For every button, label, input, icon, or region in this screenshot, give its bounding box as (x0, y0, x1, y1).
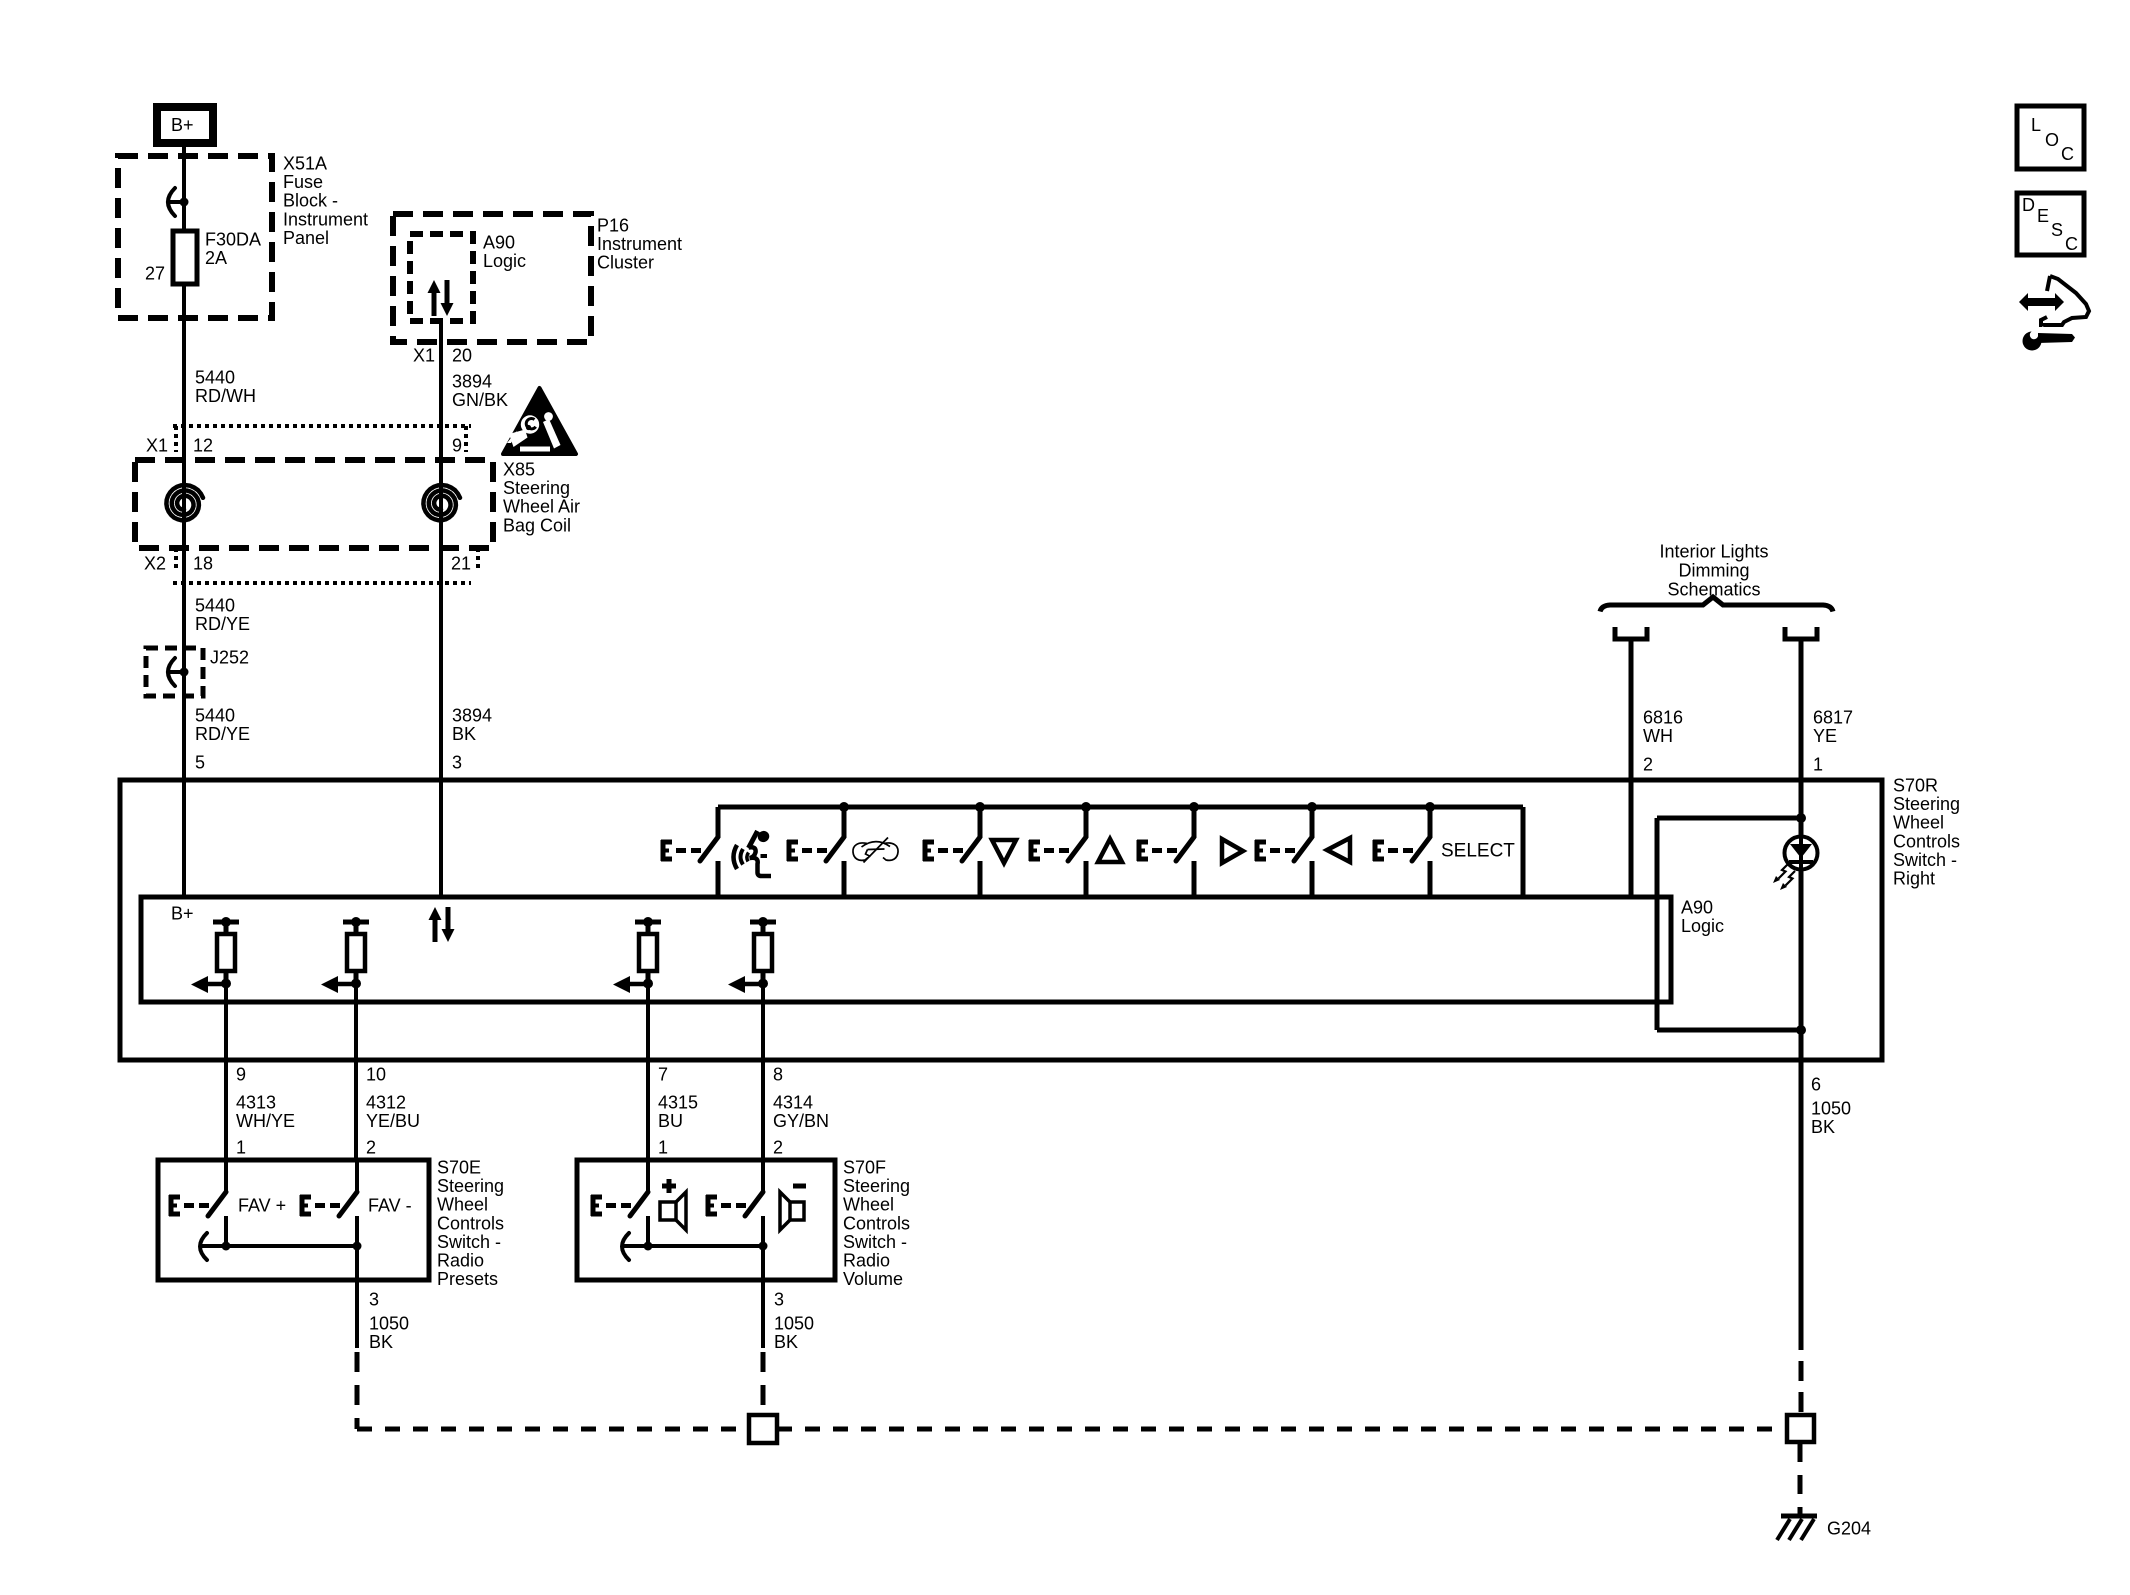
svg-text:Panel: Panel (283, 228, 329, 248)
wire X2 to J252 (182, 548, 186, 648)
resistor pull-up R1 pin9 (191, 917, 239, 993)
svg-text:C: C (2065, 234, 2078, 254)
switch FAV+ (169, 1160, 226, 1246)
svg-text:SELECT: SELECT (1441, 841, 1515, 862)
svg-text:Instrument: Instrument (283, 209, 368, 229)
wire through left coil (182, 460, 186, 548)
connector X51A fuse block dashed box (118, 156, 272, 318)
svg-text:BK: BK (369, 1332, 393, 1352)
svg-text:BK: BK (452, 724, 476, 744)
svg-text:1: 1 (1813, 755, 1823, 775)
svg-text:2A: 2A (205, 248, 227, 268)
svg-text:2: 2 (1643, 755, 1653, 775)
wire 6817 upper (1799, 639, 1804, 837)
svg-text:3: 3 (452, 753, 462, 773)
svg-text:B+: B+ (171, 904, 194, 924)
svg-text:X85: X85 (503, 460, 535, 480)
svg-text:Switch -: Switch - (843, 1232, 907, 1252)
A90 logic rail box inside S70R (141, 897, 1671, 1002)
common bus S70E (202, 1244, 357, 1248)
connector row X1 dotted (173, 426, 471, 452)
lead terminal left (1615, 627, 1647, 639)
icon next triangle (1222, 839, 1243, 863)
svg-text:X1: X1 (146, 436, 168, 456)
svg-text:Switch -: Switch - (1893, 850, 1957, 870)
junction dot at 1430 (1425, 802, 1435, 812)
svg-text:Controls: Controls (843, 1213, 910, 1233)
svg-text:20: 20 (452, 346, 472, 366)
coil spiral left (166, 485, 203, 520)
wire A90 to S70R pin 3 (439, 321, 443, 897)
svg-text:Right: Right (1893, 869, 1935, 889)
svg-text:4315: 4315 (658, 1093, 698, 1113)
svg-text:YE/BU: YE/BU (366, 1111, 420, 1131)
svg-text:YE: YE (1813, 726, 1837, 746)
icon previous triangle (1327, 838, 1350, 862)
fuse F30DA 2A (173, 231, 197, 284)
svg-text:1050: 1050 (774, 1314, 814, 1334)
junction dot at 980 (975, 802, 985, 812)
svg-text:6: 6 (1811, 1075, 1821, 1095)
resistor pull-up R3 pin7 (613, 917, 661, 993)
module S70E steering wheel controls switch radio presets box (158, 1160, 429, 1280)
svg-text:L: L (2031, 115, 2041, 135)
svg-text:WH/YE: WH/YE (236, 1111, 295, 1131)
icon seek down triangle (992, 840, 1016, 863)
svg-text:1: 1 (658, 1138, 668, 1158)
svg-text:4314: 4314 (773, 1093, 813, 1113)
junction dot at 1312 (1307, 802, 1317, 812)
svg-text:Cluster: Cluster (597, 253, 654, 273)
svg-text:Presets: Presets (437, 1269, 498, 1289)
svg-text:5: 5 (195, 753, 205, 773)
A90 logic dashed box (410, 234, 473, 321)
LOC box (2017, 106, 2084, 169)
svg-text:21: 21 (451, 554, 471, 574)
svg-text:GY/BN: GY/BN (773, 1111, 829, 1131)
clip hook S70E common (200, 1233, 207, 1260)
svg-text:BK: BK (774, 1332, 798, 1352)
junction dot at 1086 (1081, 802, 1091, 812)
svg-text:5440: 5440 (195, 706, 235, 726)
svg-text:6817: 6817 (1813, 708, 1853, 728)
svg-text:5440: 5440 (195, 596, 235, 616)
coil spiral right (423, 485, 460, 520)
switch FAV- (300, 1160, 357, 1246)
dashed ground bus horizontal (357, 1427, 749, 1432)
module S70R steering wheel controls switch right box (120, 780, 1882, 1060)
svg-text:S70E: S70E (437, 1158, 481, 1178)
svg-text:2: 2 (366, 1138, 376, 1158)
svg-text:S70R: S70R (1893, 776, 1938, 796)
svg-text:FAV +: FAV + (238, 1196, 286, 1216)
svg-text:Steering: Steering (1893, 794, 1960, 814)
wire pin5 into box (182, 780, 186, 897)
switch row bus (718, 805, 1523, 810)
svg-text:Switch -: Switch - (437, 1232, 501, 1252)
switch S70R next (1137, 807, 1194, 898)
svg-text:Wheel: Wheel (843, 1195, 894, 1215)
svg-text:RD/YE: RD/YE (195, 614, 250, 634)
svg-text:Dimming: Dimming (1678, 561, 1749, 581)
switch S70R voice (661, 807, 718, 898)
wire through right coil (439, 460, 443, 548)
svg-text:5440: 5440 (195, 368, 235, 388)
dashed ground wire S70E (355, 1352, 360, 1429)
svg-text:Radio: Radio (843, 1251, 890, 1271)
svg-text:Wheel Air: Wheel Air (503, 497, 580, 517)
svg-text:Logic: Logic (483, 251, 526, 271)
icon seek up triangle (1098, 839, 1122, 862)
minus sign (793, 1184, 806, 1189)
splice J252 dashed box (146, 648, 203, 696)
module S70F steering wheel controls switch radio volume box (577, 1160, 835, 1280)
dashed ground wire S70F (761, 1352, 766, 1415)
svg-text:S: S (2051, 220, 2063, 240)
clip terminal at J252 (168, 658, 175, 686)
svg-text:X1: X1 (413, 346, 435, 366)
wire J252 to S70R pin 5 (182, 696, 186, 897)
svg-text:Logic: Logic (1681, 916, 1724, 936)
wire R1 to pin 9 (224, 986, 228, 1160)
wire 1050 BK from pin 6 (1799, 1060, 1804, 1330)
svg-text:1: 1 (236, 1138, 246, 1158)
svg-text:C: C (2061, 144, 2074, 164)
svg-text:Bag Coil: Bag Coil (503, 515, 571, 535)
svg-text:Steering: Steering (437, 1176, 504, 1196)
svg-text:WH: WH (1643, 726, 1673, 746)
lead terminal right (1785, 627, 1817, 639)
svg-text:S70F: S70F (843, 1158, 886, 1178)
svg-text:A90: A90 (1681, 898, 1713, 918)
switch volume down (706, 1160, 763, 1246)
icon phone off (853, 838, 898, 863)
svg-text:9: 9 (236, 1065, 246, 1085)
svg-text:Controls: Controls (1893, 831, 1960, 851)
svg-text:12: 12 (193, 436, 213, 456)
svg-text:FAV -: FAV - (368, 1196, 412, 1216)
svg-text:8: 8 (773, 1065, 783, 1085)
air bag warning triangle (503, 388, 576, 454)
svg-text:P16: P16 (597, 216, 629, 236)
wire R2 to pin 10 (354, 986, 358, 1160)
brace (1600, 597, 1833, 612)
connector X85 steering wheel air bag coil dashed box (135, 460, 493, 548)
speaker icon volume down (780, 1192, 804, 1230)
splice square right (1787, 1415, 1814, 1442)
icon harness service (2019, 276, 2089, 351)
speaker icon volume up (660, 1192, 686, 1230)
svg-text:BK: BK (1811, 1117, 1835, 1137)
wire R4 to pin 8 (761, 986, 765, 1160)
LED backlight (1773, 837, 1818, 891)
svg-text:Controls: Controls (437, 1213, 504, 1233)
svg-text:7: 7 (658, 1065, 668, 1085)
svg-text:BU: BU (658, 1111, 683, 1131)
svg-text:Wheel: Wheel (1893, 813, 1944, 833)
wire fuse to connector X1 (182, 284, 186, 460)
switch volume up (591, 1160, 648, 1246)
switch S70R seek down (923, 807, 980, 898)
dashed wire to splice (1799, 1330, 1804, 1415)
svg-text:4312: 4312 (366, 1093, 406, 1113)
svg-text:27: 27 (145, 264, 165, 284)
splice square middle (749, 1415, 777, 1443)
svg-text:J252: J252 (210, 648, 249, 668)
power symbol B+ (157, 107, 213, 143)
svg-text:GN/BK: GN/BK (452, 390, 508, 410)
svg-text:2: 2 (773, 1138, 783, 1158)
note Interior Lights Dimming Schematics (1659, 542, 1768, 600)
svg-text:RD/YE: RD/YE (195, 724, 250, 744)
ground G204 (1777, 1516, 1817, 1540)
switch S70R previous (1255, 807, 1312, 898)
wire S70F pin3 (761, 1246, 765, 1348)
svg-text:X2: X2 (144, 554, 166, 574)
svg-text:Fuse: Fuse (283, 172, 323, 192)
wire B+ to fuse block (182, 147, 186, 156)
svg-text:3: 3 (369, 1290, 379, 1310)
svg-text:18: 18 (193, 554, 213, 574)
svg-text:D: D (2022, 195, 2035, 215)
svg-text:RD/WH: RD/WH (195, 386, 256, 406)
svg-text:4313: 4313 (236, 1093, 276, 1113)
svg-text:E: E (2037, 206, 2049, 226)
svg-text:Volume: Volume (843, 1269, 903, 1289)
clip terminal at fuse input (168, 188, 175, 216)
resistor pull-up R2 pin10 (321, 917, 369, 993)
svg-text:Wheel: Wheel (437, 1195, 488, 1215)
clip hook S70F common (622, 1233, 629, 1260)
svg-text:3: 3 (774, 1290, 784, 1310)
wire 6816 (1629, 639, 1634, 897)
resistor pull-up R4 pin8 (728, 917, 776, 993)
svg-text:10: 10 (366, 1065, 386, 1085)
svg-text:Radio: Radio (437, 1251, 484, 1271)
switch S70R seek up (1029, 807, 1086, 898)
A90 logic box right inside S70R (1657, 818, 1801, 1030)
dashed ground bus horizontal right (777, 1427, 1787, 1432)
svg-text:Interior Lights: Interior Lights (1659, 542, 1768, 562)
common bus S70F (624, 1244, 763, 1248)
svg-text:Steering: Steering (503, 478, 570, 498)
svg-text:1050: 1050 (369, 1314, 409, 1334)
up-down arrows in A90 (428, 280, 454, 316)
wire through J252 (182, 648, 186, 696)
junction dot at 1194 (1189, 802, 1199, 812)
icon voice recognition (734, 829, 772, 876)
wire S70E pin3 (355, 1246, 359, 1348)
svg-text:A90: A90 (483, 233, 515, 253)
plus sign (662, 1179, 676, 1193)
svg-text:O: O (2045, 130, 2059, 150)
svg-text:Block -: Block - (283, 191, 338, 211)
svg-text:G204: G204 (1827, 1519, 1871, 1539)
switch row right edge (1521, 807, 1526, 898)
svg-text:Steering: Steering (843, 1176, 910, 1196)
svg-text:F30DA: F30DA (205, 230, 261, 250)
wire R3 to pin 7 (646, 986, 650, 1160)
up-down arrows internal (429, 907, 455, 942)
svg-text:3894: 3894 (452, 372, 492, 392)
switch S70R phone (787, 807, 844, 898)
svg-text:1050: 1050 (1811, 1099, 1851, 1119)
svg-text:Instrument: Instrument (597, 234, 682, 254)
connector row X2 dotted (173, 548, 478, 583)
switch S70R select (1373, 807, 1430, 898)
svg-text:9: 9 (452, 436, 462, 456)
svg-text:3894: 3894 (452, 706, 492, 726)
dashed wire splice to ground (1798, 1443, 1803, 1516)
wire inside fuse block (182, 156, 186, 231)
DESC box (2017, 193, 2084, 255)
module P16 instrument cluster dashed box (393, 214, 591, 342)
svg-text:6816: 6816 (1643, 708, 1683, 728)
wire 6817 through LED (1799, 837, 1804, 1060)
svg-text:B+: B+ (171, 115, 194, 135)
junction dot at 844 (839, 802, 849, 812)
svg-text:X51A: X51A (283, 154, 327, 174)
